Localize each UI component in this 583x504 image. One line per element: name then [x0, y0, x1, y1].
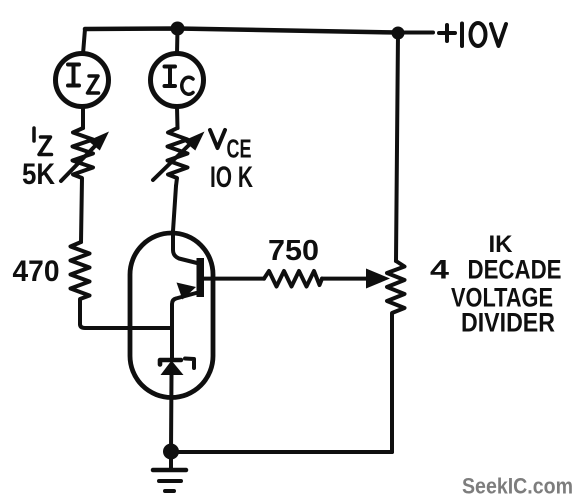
zener diode hook: [185, 359, 194, 369]
transistor envelope oval: [130, 233, 213, 398]
wire +10V stub: [398, 31, 433, 35]
wire bottom return: [171, 450, 392, 454]
transistor base bar: [197, 258, 205, 297]
label 1K: [489, 231, 514, 258]
resistor 750 zigzag: [264, 271, 322, 287]
wire 470 to emitter node: [80, 324, 172, 328]
meter IC: [151, 54, 204, 107]
svg-text:750: 750: [268, 235, 319, 267]
rheostat IZ arrow: [61, 132, 109, 182]
label VOLTAGE: [451, 283, 553, 313]
wire IZ meter top: [83, 29, 85, 54]
svg-text:CE: CE: [227, 134, 252, 164]
rheostat VCE zigzag: [168, 128, 188, 186]
svg-text:IO K: IO K: [210, 161, 253, 194]
meter IZ: [56, 54, 109, 107]
transistor collector lead: [173, 231, 197, 263]
label 10K: [210, 161, 253, 194]
svg-text:4: 4: [430, 255, 449, 285]
label IZ: [34, 128, 52, 155]
wire zener to ground node: [169, 375, 174, 453]
wire top bus: [85, 29, 398, 33]
svg-text:5K: 5K: [22, 158, 55, 191]
potentiometer divider zigzag: [387, 261, 405, 452]
wire IZ meter bottom: [81, 106, 85, 128]
wiper arrow: [366, 269, 390, 289]
transistor emitter lead: [172, 293, 196, 358]
potentiometer divider top wire: [396, 33, 398, 261]
svg-text:SeekIC.com: SeekIC.com: [462, 474, 573, 499]
label +10V: [439, 23, 506, 46]
rheostat IZ 5K zigzag: [73, 128, 94, 242]
wire IC meter bottom: [175, 107, 180, 128]
zener diode bar: [160, 360, 181, 365]
label VCE: [210, 130, 252, 164]
ground symbol: [153, 452, 186, 491]
label DIVIDER: [461, 308, 555, 338]
label 470: [13, 255, 60, 288]
label 4 DECADE: [430, 255, 562, 285]
resistor 470 zigzag: [71, 242, 90, 324]
wire IC meter top: [175, 29, 180, 55]
wire 750 to wiper: [322, 277, 368, 281]
label 750: [268, 235, 319, 267]
transistor emitter arrow: [177, 283, 197, 300]
watermark SeekIC.com: [462, 474, 573, 499]
junction node top center: [171, 22, 185, 36]
svg-text:470: 470: [13, 255, 60, 288]
junction node top right: [392, 27, 405, 40]
transistor base wire: [204, 277, 264, 281]
svg-text:DECADE: DECADE: [468, 255, 562, 285]
junction node ground: [163, 444, 179, 460]
zener diode triangle: [161, 361, 184, 376]
label 5K: [22, 158, 55, 191]
wire VCE to collector: [173, 186, 176, 231]
rheostat VCE arrow: [153, 132, 205, 181]
svg-text:DIVIDER: DIVIDER: [461, 308, 555, 338]
